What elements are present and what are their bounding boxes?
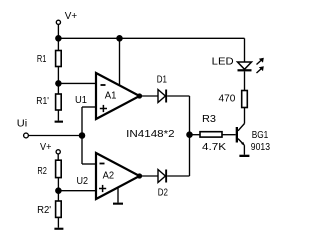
- wire R3 to base: [222, 134, 236, 136]
- svg-text:D2: D2: [158, 186, 168, 198]
- junction A2 output: [138, 174, 142, 178]
- wire node B to A2 non-inverting input: [58, 190, 96, 192]
- wire LED to 470: [244, 71, 246, 90]
- svg-text:Ui: Ui: [17, 118, 27, 130]
- wire emitter to ground: [243, 145, 245, 155]
- ground (below R1'): [55, 121, 63, 123]
- svg-text:R1': R1': [36, 95, 49, 107]
- svg-text:A1: A1: [105, 90, 117, 102]
- wire A2 ground pin: [117, 187, 119, 202]
- svg-text:9013: 9013: [251, 141, 270, 153]
- resistor R1': [56, 94, 62, 110]
- wire rail to R1: [57, 38, 59, 50]
- svg-text:R1: R1: [37, 53, 47, 65]
- wire Ui vertical: [81, 107, 83, 164]
- svg-text:R3: R3: [202, 113, 216, 125]
- resistor 470: [242, 91, 248, 108]
- junction rail at A1 supply: [117, 36, 122, 41]
- wire rail to LED: [244, 38, 246, 62]
- svg-text:LED: LED: [212, 56, 234, 68]
- wire A2 output to D2: [140, 175, 159, 177]
- wire V+ terminal to rail: [57, 25, 59, 39]
- wire to A2 inverting input: [82, 163, 96, 165]
- svg-text:A2: A2: [103, 170, 115, 182]
- LED arrow 1: [257, 60, 263, 65]
- junction node A: [56, 81, 61, 86]
- terminal Ui: [24, 133, 29, 138]
- svg-text:4.7K: 4.7K: [202, 141, 226, 153]
- A1 minus sign: [101, 84, 106, 86]
- wire V+ rail: [58, 37, 244, 39]
- wire R2' to ground: [57, 217, 59, 227]
- wire Ui to junction: [29, 135, 83, 137]
- transistor BG1: [236, 127, 238, 143]
- wire node B to R2': [57, 191, 59, 201]
- junction rail left: [56, 36, 61, 41]
- svg-text:470: 470: [219, 93, 236, 105]
- diode D2: [158, 170, 165, 183]
- wire node A to R1': [57, 83, 59, 94]
- wire A1 output to D1: [140, 95, 159, 97]
- op-amp U1/A1: [96, 73, 140, 119]
- wire R2 to node B: [57, 178, 59, 191]
- junction Ui node: [79, 133, 84, 138]
- diode D1: [158, 90, 165, 103]
- wire node A to A1 inverting input: [58, 82, 96, 84]
- svg-text:U2: U2: [77, 175, 89, 187]
- wire junction to R3: [190, 134, 201, 136]
- resistor R2: [56, 160, 62, 177]
- svg-text:R2: R2: [37, 165, 47, 177]
- svg-text:U1: U1: [75, 94, 87, 106]
- wire D1 cathode to bus: [167, 95, 189, 97]
- wire A1 supply pin: [119, 38, 121, 85]
- A1 plus sign: [100, 108, 107, 110]
- svg-text:V+: V+: [40, 141, 51, 153]
- terminal V+ (top): [56, 20, 60, 24]
- svg-text:V+: V+: [65, 10, 77, 22]
- junction node B: [56, 188, 61, 193]
- op-amp U2/A2: [96, 153, 140, 199]
- svg-text:D1: D1: [157, 73, 167, 85]
- wire R1 to node A: [57, 67, 59, 84]
- resistor R1: [56, 51, 62, 67]
- wire diode bus vertical: [189, 96, 191, 176]
- junction A1 output: [138, 94, 142, 98]
- ground (below A2): [113, 203, 123, 205]
- ground (emitter): [239, 155, 249, 157]
- resistor R3: [200, 132, 222, 137]
- svg-text:IN4148*2: IN4148*2: [126, 128, 175, 140]
- A2 plus sign: [99, 188, 106, 190]
- wire 470 to collector: [244, 108, 246, 124]
- A2 minus sign: [100, 163, 105, 165]
- junction diode bus to R3: [187, 132, 192, 137]
- wire R1' to ground: [57, 110, 59, 121]
- wire to A1 non-inverting input: [82, 106, 96, 108]
- LED arrow 2: [257, 68, 263, 73]
- svg-text:BG1: BG1: [252, 129, 269, 141]
- wire V+ lower to R2: [57, 154, 59, 160]
- ground (below R2'): [54, 228, 63, 230]
- svg-text:R2': R2': [37, 204, 51, 216]
- LED: [238, 62, 252, 69]
- wire D2 cathode to bus: [167, 175, 189, 177]
- terminal V+ (lower): [56, 150, 60, 154]
- resistor R2': [56, 201, 62, 217]
